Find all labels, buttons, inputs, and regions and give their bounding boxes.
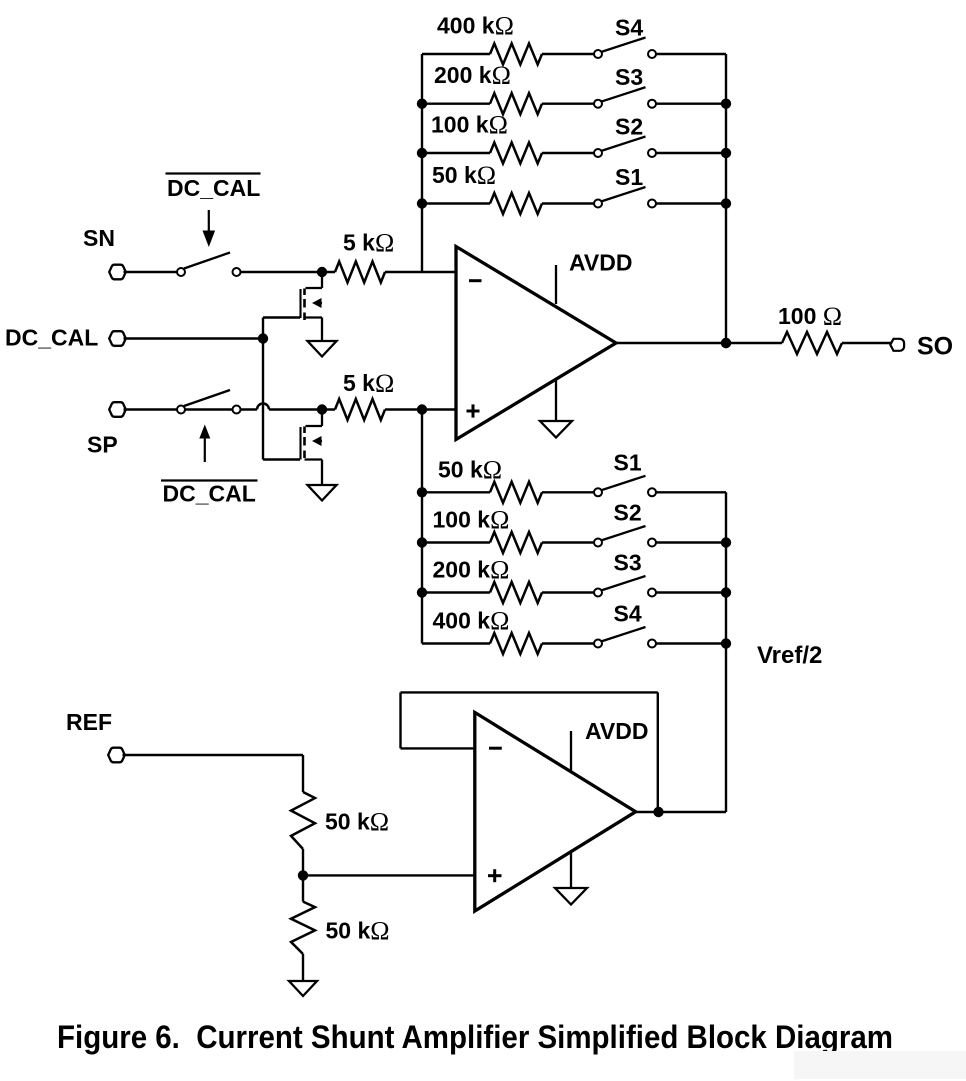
- svg-text:50 kΩ: 50 kΩ: [325, 808, 389, 837]
- svg-text:5 kΩ: 5 kΩ: [343, 229, 394, 258]
- svg-text:50 kΩ: 50 kΩ: [438, 455, 502, 484]
- svg-text:AVDD: AVDD: [569, 250, 632, 276]
- svg-text:S4: S4: [614, 601, 642, 627]
- svg-text:S2: S2: [614, 500, 642, 526]
- svg-text:400 kΩ: 400 kΩ: [437, 12, 514, 41]
- svg-text:DC_CAL: DC_CAL: [163, 481, 256, 507]
- svg-text:REF: REF: [66, 709, 112, 735]
- svg-text:DC_CAL: DC_CAL: [167, 175, 260, 201]
- svg-text:S3: S3: [614, 550, 642, 576]
- svg-text:5 kΩ: 5 kΩ: [343, 369, 394, 398]
- svg-text:S4: S4: [615, 14, 643, 40]
- svg-text:SP: SP: [87, 432, 118, 458]
- svg-text:AVDD: AVDD: [585, 718, 648, 744]
- svg-text:Figure 6. Current Shunt Ampli: Figure 6. Current Shunt Amplifier Simpli…: [57, 1019, 893, 1055]
- svg-text:50 kΩ: 50 kΩ: [432, 161, 496, 190]
- svg-text:Vref/2: Vref/2: [757, 642, 822, 669]
- svg-text:S1: S1: [614, 450, 642, 476]
- svg-text:SO: SO: [917, 333, 953, 361]
- svg-text:S3: S3: [615, 64, 643, 90]
- svg-text:S2: S2: [615, 113, 643, 139]
- svg-text:50 kΩ: 50 kΩ: [326, 917, 390, 946]
- svg-text:100 Ω: 100 Ω: [778, 302, 842, 331]
- svg-text:200 kΩ: 200 kΩ: [433, 556, 510, 585]
- svg-text:400 kΩ: 400 kΩ: [433, 607, 510, 636]
- svg-text:S1: S1: [615, 164, 643, 190]
- svg-text:100 kΩ: 100 kΩ: [431, 111, 508, 140]
- svg-text:200 kΩ: 200 kΩ: [434, 61, 511, 90]
- svg-text:SN: SN: [83, 225, 115, 251]
- svg-text:DC_CAL: DC_CAL: [5, 325, 98, 351]
- svg-text:100 kΩ: 100 kΩ: [433, 506, 510, 535]
